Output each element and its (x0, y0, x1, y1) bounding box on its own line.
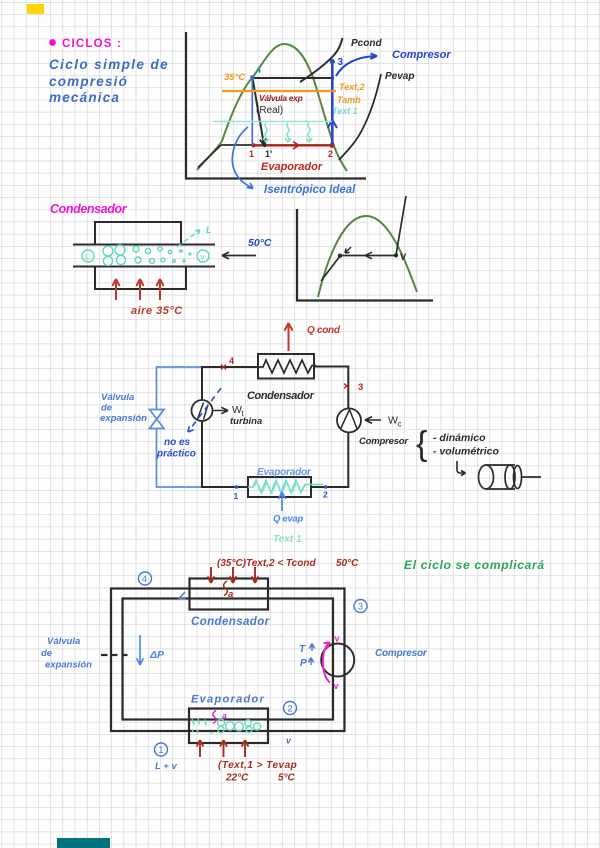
not practical dashed arrow (188, 388, 221, 432)
svg-text:Text,2: Text,2 (339, 82, 365, 92)
tie line with arrow (340, 255, 396, 257)
shell rectangles (95, 222, 181, 244)
svg-text:Pevap: Pevap (385, 71, 414, 82)
svg-text:2: 2 (323, 490, 328, 500)
svg-text:4: 4 (256, 65, 261, 75)
svg-text:Tamb: Tamb (337, 95, 361, 105)
svg-text:2: 2 (328, 149, 333, 159)
svg-text:a: a (228, 589, 233, 600)
axes (297, 209, 433, 301)
Q cond arrow (285, 323, 293, 351)
zeta a in condenser (224, 581, 228, 596)
svg-text:Compresor: Compresor (392, 49, 451, 61)
svg-text:Q cond: Q cond (307, 325, 341, 336)
svg-text:Ciclo simple de: Ciclo simple de (49, 57, 169, 72)
svg-text:4: 4 (142, 574, 147, 584)
Pevap isobar curve (339, 74, 381, 160)
svg-text:Q evap: Q evap (273, 514, 303, 525)
evaporator box (189, 709, 268, 744)
green dome (318, 216, 417, 297)
small angle mark left of condenser (179, 592, 186, 599)
svg-text:1: 1 (234, 491, 239, 501)
svg-text:v: v (335, 634, 340, 644)
circled L and V (82, 250, 94, 262)
svg-text:(35°C)Text,2 < Tcond: (35°C)Text,2 < Tcond (217, 558, 316, 569)
svg-text:mecánica: mecánica (49, 90, 120, 105)
svg-text:50°C: 50°C (336, 558, 359, 569)
watermark bottom-left (57, 838, 110, 848)
red arrows into condenser (208, 567, 259, 583)
svg-text:1: 1 (249, 149, 254, 159)
real expansion line 4 to 1' (253, 78, 266, 145)
svg-text:50°C: 50°C (248, 237, 272, 249)
svg-text:Válvula exp: Válvula exp (259, 93, 303, 103)
expansion valve bowtie (150, 410, 165, 429)
svg-text:práctico: práctico (156, 449, 196, 460)
svg-text:v: v (334, 681, 339, 691)
evaporation red line (253, 144, 332, 146)
air arrows red (112, 279, 163, 300)
svg-text:L + v: L + v (155, 761, 177, 772)
svg-text:ΔP: ΔP (149, 649, 165, 661)
svg-text:turbina: turbina (230, 416, 262, 427)
svg-text:(Real): (Real) (256, 105, 283, 116)
Pcond isobar curve (300, 38, 343, 82)
svg-text:expansión: expansión (100, 413, 147, 424)
svg-text:1': 1' (265, 149, 272, 159)
svg-text:c: c (398, 420, 402, 429)
svg-text:Condensador: Condensador (50, 202, 128, 216)
condensation top line (252, 77, 334, 79)
isentropic arrow arc (232, 127, 253, 189)
svg-text:Evaporador: Evaporador (261, 161, 323, 173)
svg-text:El ciclo se complicará: El ciclo se complicará (404, 558, 545, 572)
svg-text:Condensador: Condensador (191, 616, 270, 628)
Text1 teal dashed line (213, 121, 332, 123)
svg-text:Compresor: Compresor (359, 436, 409, 447)
svg-text:- dinámico: - dinámico (433, 432, 486, 444)
svg-text:22°C: 22°C (225, 773, 249, 784)
svg-text:35°C: 35°C (224, 72, 245, 83)
svg-text:P: P (300, 658, 307, 669)
teal squiggles (263, 123, 269, 142)
svg-text:T: T (299, 644, 306, 655)
pipe rectangles (111, 589, 345, 732)
inlet arrow (222, 252, 256, 259)
svg-text:Condensador: Condensador (247, 390, 315, 402)
svg-text:Compresor: Compresor (375, 648, 428, 659)
right steep line (396, 196, 406, 255)
svg-text:L: L (85, 253, 90, 262)
expansion valve dashes (101, 654, 128, 656)
svg-text:1: 1 (159, 745, 164, 755)
vapor leaves arrow (177, 230, 200, 247)
svg-text:4: 4 (229, 356, 234, 366)
evaporator box (248, 477, 311, 497)
black wires (202, 367, 258, 487)
condenser box with zigzag (258, 354, 314, 379)
circled numbers (139, 572, 368, 756)
svg-text:compresió: compresió (49, 74, 128, 89)
subcooled liquid line (198, 145, 221, 168)
svg-text:Válvula: Válvula (101, 392, 134, 403)
svg-text:v: v (201, 253, 205, 262)
Tamb orange line (222, 90, 336, 92)
svg-text:no es: no es (164, 437, 191, 448)
svg-text:- volumétrico: - volumétrico (433, 446, 500, 458)
condenser box (190, 579, 269, 610)
svg-text:W: W (232, 404, 242, 416)
L tick arrow (345, 247, 351, 253)
svg-text:2: 2 (288, 704, 293, 714)
saturation dome green (197, 44, 347, 171)
svg-text:3: 3 (358, 382, 363, 393)
magenta arc (323, 643, 330, 683)
compression blue line 2-3 (331, 61, 334, 145)
L arrow (457, 461, 466, 476)
axes (186, 32, 366, 179)
svg-text:(Text,1 > Tevap: (Text,1 > Tevap (218, 760, 297, 771)
svg-text:Evaporador: Evaporador (257, 467, 312, 478)
compressor circle (337, 408, 361, 432)
blue bypass loop (157, 367, 203, 487)
turbine circle (192, 400, 213, 421)
svg-text:aire 35°C: aire 35°C (131, 305, 183, 317)
watermark top-left (27, 4, 44, 14)
isentropic blue line 4-1 (251, 78, 253, 145)
svg-text:Isentrópico Ideal: Isentrópico Ideal (264, 184, 356, 196)
svg-text:Evaporador: Evaporador (191, 694, 265, 706)
pipe lines (73, 244, 215, 246)
svg-text:W: W (388, 415, 398, 427)
svg-text:de: de (101, 403, 113, 414)
black segment to point 1 (221, 144, 253, 146)
svg-text:V: V (400, 252, 407, 263)
bubbles (103, 245, 191, 266)
svg-text:{: { (416, 425, 427, 463)
piston cylinder (479, 465, 494, 489)
svg-text:expansión: expansión (45, 660, 92, 671)
svg-text:L: L (206, 225, 212, 235)
red arrows into evaporator from below (197, 740, 249, 757)
compressor circle (321, 644, 354, 677)
Wt arrow (214, 407, 229, 413)
svg-text:Válvula: Válvula (47, 636, 80, 647)
svg-text:CICLOS :: CICLOS : (62, 38, 122, 50)
left tail (321, 256, 340, 281)
Q evap arrow (278, 492, 285, 511)
svg-text:Pcond: Pcond (351, 38, 382, 49)
svg-text:de: de (41, 648, 53, 659)
delta P (137, 635, 144, 665)
svg-text:Text 1: Text 1 (273, 534, 302, 545)
svg-text:5°C: 5°C (278, 773, 296, 784)
svg-text:3: 3 (358, 602, 363, 612)
svg-text:Text 1: Text 1 (332, 106, 358, 116)
